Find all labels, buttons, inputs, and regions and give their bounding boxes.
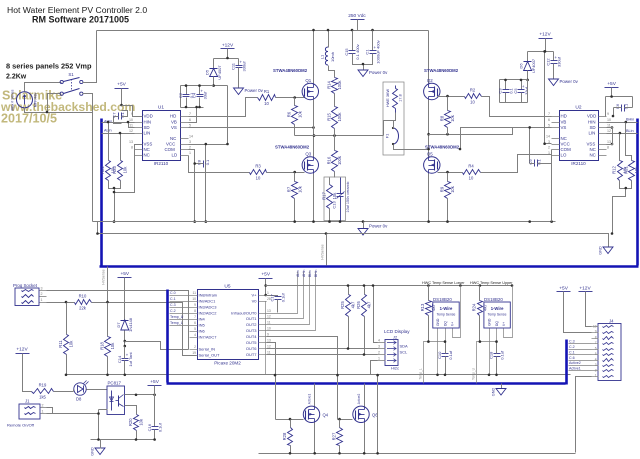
wire C2C4 left — [180, 86, 182, 108]
wire HVSense drop left — [107, 267, 109, 303]
svg-text:10k: 10k — [450, 185, 455, 193]
wire U1 VS to node A — [189, 127, 314, 129]
wire R20 bottom — [136, 431, 138, 440]
junction dot +5V U1 — [120, 104, 123, 107]
wire R17 bottom — [329, 209, 331, 222]
svg-text:BHin: BHin — [626, 118, 634, 122]
svg-text:0.1uf: 0.1uf — [281, 292, 286, 302]
svg-text:1: 1 — [42, 410, 44, 414]
wire +12V right node — [528, 51, 554, 53]
svg-text:UF4007: UF4007 — [217, 65, 222, 80]
svg-text:C5: C5 — [513, 88, 518, 94]
capacitor C13 10uf 150v ceramic — [332, 178, 351, 222]
resistor R20 10k — [128, 415, 144, 431]
transistor Q5 STWA48N60DM2 — [424, 151, 440, 173]
svg-text:13: 13 — [129, 140, 133, 144]
wire +12V J4 — [586, 292, 592, 327]
svg-text:Temp_U: Temp_U — [170, 315, 184, 319]
wire C17 link — [266, 296, 278, 297]
wire U1 LD to R3 — [189, 156, 250, 173]
wire Q2 drain — [428, 31, 430, 84]
svg-text:10mh: 10mh — [330, 52, 335, 62]
wire Q2 source node B — [428, 100, 430, 157]
svg-text:5: 5 — [194, 327, 196, 331]
wire R7 col — [294, 173, 296, 182]
svg-text:8 series panels 252 Vmp: 8 series panels 252 Vmp — [6, 62, 92, 71]
junction dot Q5 gate — [446, 171, 449, 174]
svg-text:10k: 10k — [297, 110, 302, 118]
svg-text:HVSense: HVSense — [102, 269, 106, 284]
svg-text:10: 10 — [264, 101, 269, 106]
svg-text:VCC: VCC — [561, 142, 570, 147]
svg-text:Temp_L: Temp_L — [419, 368, 423, 380]
svg-text:HWC Temp Sense Upper: HWC Temp Sense Upper — [470, 281, 513, 285]
svg-text:3: 3 — [595, 363, 597, 367]
svg-text:1N4148: 1N4148 — [128, 317, 133, 332]
wire Q6 gate wire — [338, 419, 353, 421]
wire C6 loop left — [605, 97, 607, 117]
connector J4 — [592, 319, 622, 381]
capacitor C11 330uf — [231, 59, 247, 71]
capacitor C6 0.1 — [615, 103, 628, 112]
wire C1 stub — [372, 31, 374, 51]
resistor R23 10k — [112, 161, 128, 181]
wire +5V U2 stub — [611, 88, 613, 97]
resistor R24 4k7 — [472, 301, 488, 316]
svg-text:R27: R27 — [331, 432, 336, 440]
svg-text:1: 1 — [189, 151, 191, 155]
svg-text:OUT3: OUT3 — [246, 328, 257, 333]
svg-text:9: 9 — [131, 112, 133, 116]
U2 left pins — [546, 112, 571, 157]
ground GND (opto) — [91, 447, 106, 456]
svg-text:2: 2 — [42, 404, 44, 408]
svg-text:IN2/ADC2: IN2/ADC2 — [199, 311, 218, 316]
svg-text:7: 7 — [194, 315, 196, 319]
svg-text:+5V: +5V — [117, 82, 126, 88]
svg-text:IN3/ADC3: IN3/ADC3 — [199, 305, 218, 310]
supply +12V (J4) — [579, 285, 593, 291]
PV panel source PV1 — [11, 89, 38, 110]
wire J2 pin1 to 0v — [371, 361, 378, 375]
svg-text:C.1: C.1 — [170, 297, 176, 301]
svg-text:0.1 400v: 0.1 400v — [355, 44, 360, 59]
wire Q1 drain — [313, 31, 315, 84]
svg-text:MPP/48v: MPP/48v — [34, 93, 38, 108]
svg-text:13: 13 — [267, 309, 271, 313]
wire C14 bottom — [124, 361, 126, 375]
wire C6 loop top — [606, 96, 633, 98]
bus HV box bottom edge — [100, 265, 639, 268]
svg-text:Max # Series: Max # Series — [11, 89, 15, 110]
svg-text:12: 12 — [129, 129, 133, 133]
wire bridge 0v rail — [93, 221, 556, 223]
wire U2 COM drop — [551, 150, 553, 222]
svg-text:13: 13 — [607, 140, 611, 144]
svg-text:LIN: LIN — [589, 131, 596, 136]
wire C2 leg2 — [186, 98, 188, 108]
svg-text:R10: R10 — [79, 294, 87, 299]
wire C6 left lead — [614, 107, 622, 109]
svg-text:Hot Water Element PV Controlle: Hot Water Element PV Controller 2.0 — [7, 5, 147, 15]
svg-text:22k: 22k — [79, 306, 87, 311]
transistor Q4 — [303, 406, 319, 422]
wire fuse to node B — [394, 145, 429, 150]
supply +5V (J4) — [557, 285, 571, 291]
supply +5V (logic left) — [118, 271, 132, 277]
svg-text:Q4: Q4 — [323, 413, 329, 418]
wire C7 wiring2 — [122, 111, 128, 117]
wire R13 bottom — [428, 316, 430, 342]
wire C17 bottom — [277, 300, 279, 313]
svg-text:10k: 10k — [634, 166, 639, 174]
capacitor C16 0.1uf — [147, 422, 163, 432]
svg-text:330uf: 330uf — [242, 61, 247, 72]
wire U2 COM stub wire — [551, 149, 553, 151]
wire C5 legs — [521, 80, 523, 90]
junction dot Q3 gate — [293, 171, 296, 174]
svg-text:OUT2: OUT2 — [246, 322, 257, 327]
wire lower 0v rail — [98, 234, 609, 247]
wire node A to load — [295, 135, 384, 137]
resistor R17 10k — [321, 185, 337, 209]
svg-text:OUT6: OUT6 — [246, 346, 257, 351]
wire Q6 source — [364, 423, 366, 454]
svg-text:U5: U5 — [224, 284, 230, 290]
svg-text:C13: C13 — [332, 201, 337, 209]
wire R14 bottom — [334, 94, 336, 107]
wire scl from U5 — [267, 354, 365, 356]
wire R16 bottom — [334, 172, 336, 178]
junction dot V+ node — [264, 284, 267, 296]
svg-text:DQ: DQ — [443, 321, 447, 326]
wire J1 pin2 — [47, 408, 53, 414]
junction dot node B — [427, 133, 430, 150]
connector J3 Prog Socket — [13, 283, 47, 306]
wire R11 bottom — [66, 355, 68, 375]
svg-text:V+: V+ — [451, 322, 455, 326]
wire C6 right lead — [625, 107, 633, 109]
svg-text:R28: R28 — [282, 432, 287, 440]
svg-text:C18: C18 — [489, 351, 494, 359]
wire L1 feed — [328, 31, 330, 48]
wire C15 stub — [352, 31, 354, 51]
wire R1 to Q1 gate — [276, 97, 305, 99]
svg-text:STWA48N60DM2: STWA48N60DM2 — [424, 68, 459, 73]
wire C8 to VCC — [205, 145, 207, 163]
junction dot pv neg — [46, 111, 49, 114]
wire pc817 pin2 — [99, 409, 108, 411]
svg-text:2: 2 — [595, 368, 597, 372]
junction dot divider join — [113, 187, 116, 223]
svg-text:J4: J4 — [609, 319, 614, 324]
resistor R7 10k — [287, 182, 303, 199]
svg-text:10k: 10k — [139, 418, 144, 426]
wire C3C5 left — [499, 80, 501, 103]
junction dot D5 bottom — [212, 84, 215, 87]
junction dots q6 gate — [336, 374, 341, 421]
svg-text:V+: V+ — [251, 293, 257, 298]
wire +5 sensor rail — [266, 285, 513, 287]
wire R11 col — [66, 303, 68, 335]
svg-text:LD: LD — [172, 153, 178, 158]
junction dot VS nodeA — [312, 126, 315, 129]
bus HV box right edge — [636, 119, 639, 266]
wire R22R23 bottom — [109, 181, 121, 189]
wire R7 bottom — [294, 199, 296, 222]
wire U2 LIN net — [607, 133, 638, 135]
heating element HWE 3KW 17.8 ohm — [386, 86, 403, 113]
wire pc817 collector — [125, 394, 155, 396]
svg-text:IN7/ADC7: IN7/ADC7 — [199, 335, 218, 340]
svg-text:DS18B20: DS18B20 — [433, 297, 452, 302]
junction dot Q2 gate — [446, 95, 449, 98]
wire U1 COM — [189, 150, 195, 222]
op-amp U2 IR2110 gate driver — [560, 105, 599, 167]
bus logic right edge — [565, 340, 568, 385]
svg-text:R19: R19 — [39, 383, 47, 388]
wire S1 pole1 to top rail — [83, 31, 97, 83]
svg-text:D6: D6 — [519, 63, 524, 69]
junction dots lower rail — [96, 232, 327, 235]
svg-text:1: 1 — [595, 374, 597, 378]
capacitor C17 0.1uf — [270, 292, 286, 302]
wire R6 bottom — [294, 125, 296, 136]
diode D5 UF4007 — [205, 65, 222, 80]
svg-text:R20: R20 — [128, 418, 133, 426]
resistor R22 10k — [100, 161, 116, 181]
wire C7 left leg — [114, 117, 122, 124]
wire PV+ to switch — [25, 83, 62, 92]
connector J1 Remote On/Off — [7, 399, 47, 428]
svg-text:C10: C10 — [437, 351, 442, 359]
wire C18 top — [496, 342, 498, 354]
svg-text:HD: HD — [170, 114, 176, 119]
svg-text:VB: VB — [171, 120, 177, 125]
svg-text:6: 6 — [548, 118, 550, 122]
svg-text:OUT5: OUT5 — [246, 340, 257, 345]
supply +5V (pc817) — [148, 379, 162, 386]
svg-text:NC: NC — [561, 136, 567, 141]
junction dots q4 gate — [274, 374, 292, 421]
bus HV box left edge — [100, 119, 103, 266]
svg-text:COM: COM — [165, 147, 176, 152]
wire R3 to Q3 gate — [267, 172, 305, 174]
svg-text:Picaxe 20M2: Picaxe 20M2 — [214, 361, 241, 366]
resistor R19 1k5 — [32, 383, 54, 400]
wire C11 to ground — [238, 68, 240, 89]
svg-text:GND: GND — [487, 318, 491, 326]
svg-text:R22: R22 — [100, 165, 105, 173]
wire pc817 emitter — [125, 406, 137, 415]
wire C2 legs — [186, 86, 188, 95]
svg-text:C.1: C.1 — [569, 350, 575, 354]
svg-text:0.1uf: 0.1uf — [500, 350, 505, 360]
junction dots serial — [65, 301, 109, 304]
junction dots D7 — [124, 340, 127, 348]
svg-text:+5V: +5V — [120, 271, 129, 277]
svg-text:11: 11 — [267, 321, 271, 325]
junction dot 0v link — [376, 374, 379, 377]
wire R27 bottom — [339, 446, 341, 454]
svg-text:VDD: VDD — [144, 114, 153, 119]
svg-text:10: 10 — [607, 118, 611, 122]
svg-text:1: 1 — [41, 298, 43, 302]
svg-text:R11: R11 — [58, 340, 63, 348]
wire D5 bottom node — [214, 77, 228, 86]
wire R6 column — [294, 98, 296, 106]
junction dot c18 — [479, 340, 498, 376]
svg-text:17.8: 17.8 — [399, 94, 403, 101]
wire C8 right col — [205, 164, 207, 222]
svg-text:Active2: Active2 — [569, 361, 581, 365]
wire +5V U5 stub — [265, 279, 267, 296]
supply 250 Vdc — [348, 13, 366, 20]
svg-text:GND: GND — [492, 388, 496, 397]
svg-text:STWA48N60DM2: STWA48N60DM2 — [275, 145, 310, 150]
wire C10 top — [445, 342, 447, 354]
svg-text:D8: D8 — [76, 397, 82, 402]
svg-text:7: 7 — [595, 341, 597, 345]
svg-text:V+: V+ — [502, 322, 506, 326]
wire J1 to pc817 — [47, 413, 99, 415]
net labels C.0 C.1 C.2 Temp_U Temp_L — [170, 291, 190, 326]
wire R12R21 to 0v — [613, 189, 626, 234]
svg-text:33uf: 33uf — [524, 86, 529, 95]
svg-text:ALin: ALin — [104, 129, 112, 133]
resistor R27 10k — [331, 428, 342, 446]
connector J2 LCD Display — [378, 329, 411, 371]
junction dot caps — [362, 63, 365, 66]
svg-text:1000uF 400v: 1000uF 400v — [376, 40, 381, 63]
svg-text:2: 2 — [41, 292, 43, 296]
junction dot +12V right — [544, 50, 547, 53]
wire R2 to U2 HD — [482, 97, 552, 117]
svg-text:8: 8 — [607, 146, 609, 150]
svg-text:10k: 10k — [69, 340, 74, 348]
svg-text:+5V: +5V — [559, 285, 568, 291]
svg-text:VS: VS — [561, 125, 567, 130]
wire V+ wire — [266, 295, 267, 297]
svg-text:F1: F1 — [385, 133, 390, 138]
wire D7 bottom — [124, 331, 126, 347]
wire D6 bottom node — [527, 71, 529, 80]
junction dot R8 node — [446, 133, 449, 136]
capacitor C5 33uf — [513, 84, 529, 95]
wire R12 top — [619, 134, 621, 161]
svg-text:R4: R4 — [468, 164, 474, 169]
wire C16 col — [154, 395, 156, 427]
svg-text:SD: SD — [590, 125, 596, 130]
svg-text:R18: R18 — [99, 341, 104, 349]
svg-text:4k7: 4k7 — [431, 303, 436, 310]
wire R9 bottom — [447, 199, 449, 222]
capacitor C18 0.1uf — [489, 350, 505, 360]
wire ALin to U1 LIN — [102, 133, 135, 135]
wire U1 HD to R1 — [189, 98, 258, 117]
resistor R14 100k — [326, 78, 342, 94]
net labels J4 side — [569, 340, 592, 371]
junction dots C2C4 — [185, 84, 201, 108]
wire C9 left lead — [530, 163, 535, 165]
svg-text:J1: J1 — [25, 399, 30, 404]
svg-text:C.0: C.0 — [170, 291, 176, 295]
wire dividers to vss — [115, 145, 143, 193]
resistor R15 100k — [326, 107, 342, 129]
svg-text:10: 10 — [192, 297, 196, 301]
svg-text:BHin: BHin — [314, 270, 318, 277]
svg-text:C4: C4 — [192, 92, 197, 98]
resistor R13 4k7 — [420, 301, 436, 316]
wire Q3 source — [313, 174, 315, 222]
wire C16 bottom — [154, 430, 156, 440]
svg-text:R25: R25 — [340, 300, 345, 308]
svg-text:Temp_U: Temp_U — [471, 367, 475, 380]
svg-text:C6: C6 — [615, 103, 620, 109]
wire power0v stub — [363, 65, 365, 71]
svg-text:NC: NC — [144, 147, 150, 152]
svg-text:19: 19 — [192, 351, 196, 355]
wire R26 bottom scl — [365, 317, 378, 355]
op-amp U1 IR2110 gate driver — [143, 105, 181, 167]
svg-text:10k: 10k — [123, 166, 128, 174]
wire R15 bottom — [334, 129, 336, 136]
U5 right pins — [231, 291, 271, 357]
svg-text:100k: 100k — [337, 80, 342, 90]
wire C9 right lead — [538, 163, 552, 165]
wire 0v link col — [377, 376, 379, 454]
wire R10 to HVSense node — [92, 303, 197, 356]
svg-text:DQ: DQ — [495, 321, 499, 326]
wire opto 0v rail — [91, 439, 155, 441]
svg-text:GND: GND — [91, 447, 95, 456]
wire load left entry — [384, 121, 396, 136]
wire R26 top — [364, 286, 366, 295]
wire J4 pin10 down — [576, 377, 592, 453]
svg-text:Q5: Q5 — [427, 151, 433, 156]
svg-text:3: 3 — [378, 345, 380, 349]
svg-text:+12V: +12V — [539, 32, 551, 38]
wire +12V stub — [227, 49, 229, 59]
svg-text:VCC: VCC — [166, 142, 175, 147]
svg-text:GND: GND — [599, 246, 603, 255]
ground Power 0v (C12) — [549, 79, 579, 86]
svg-text:R15: R15 — [326, 112, 331, 120]
wire Q5 gate to R4 — [438, 172, 463, 174]
ground GND (sensors) — [492, 388, 507, 397]
svg-text:Active1: Active1 — [569, 367, 581, 371]
svg-text:STWA48N60DM2: STWA48N60DM2 — [273, 68, 308, 73]
svg-text:10k: 10k — [110, 342, 115, 350]
svg-text:8: 8 — [194, 309, 196, 313]
load box outline — [383, 82, 404, 155]
svg-text:C.2: C.2 — [170, 309, 176, 313]
junction dot node B vs — [459, 148, 462, 151]
svg-text:SCL: SCL — [400, 350, 409, 355]
wire +5V J4 — [564, 292, 592, 333]
junction dot node A r15 — [333, 134, 336, 137]
resistor R1 10 — [258, 89, 276, 106]
wire R4 to U2 LO — [481, 155, 552, 173]
wire LED left lead — [73, 390, 75, 392]
svg-text:R3: R3 — [255, 164, 261, 169]
svg-text:R26: R26 — [356, 300, 361, 308]
wire bottom rail — [259, 453, 576, 455]
svg-text:10: 10 — [593, 324, 597, 328]
wire LED to PC817 — [87, 389, 108, 391]
svg-text:ALin: ALin — [296, 270, 300, 277]
wire 250Vdc stub — [357, 20, 359, 31]
